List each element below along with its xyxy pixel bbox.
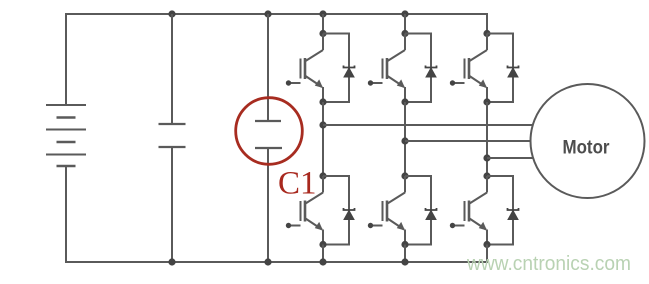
gate terminal of Q3 high-side xyxy=(450,80,455,85)
gate terminal of Q6 low-side xyxy=(450,223,455,228)
wire (C1 bottom lead) xyxy=(267,148,269,262)
diode D2 (freewheeling, cathode up) xyxy=(426,66,437,78)
node phase U (output tap, leg 1) xyxy=(319,121,326,128)
IGBT Q2 (high-side) xyxy=(383,34,406,103)
capacitor (input filter) xyxy=(159,124,186,147)
wire (freewheel branch of D6) xyxy=(487,176,513,245)
svg-text:www.cntronics.com: www.cntronics.com xyxy=(466,253,631,275)
junction node (collector of Q6 (low-side)) xyxy=(483,172,490,179)
junction node (collector of Q4 (low-side)) xyxy=(319,172,326,179)
wire (phase V to motor) xyxy=(405,140,533,142)
wire (leg 3 midpoint) xyxy=(486,102,488,176)
wire (leg 2 midpoint) xyxy=(404,102,406,176)
wire (leg 2 from DC+ bus) xyxy=(404,14,406,34)
gate terminal of Q2 high-side xyxy=(368,80,373,85)
junction node (collector of Q5 (low-side)) xyxy=(401,172,408,179)
junction node (bottom bus / C-filter) xyxy=(168,258,175,265)
battery V1 (DC source) xyxy=(46,105,86,166)
gate terminal of Q4 low-side xyxy=(286,223,291,228)
wire (DC- bottom bus) xyxy=(65,261,488,263)
junction node (emitter of Q2 (high-side)) xyxy=(401,98,408,105)
wire (freewheel branch of D1) xyxy=(323,34,349,103)
wire (freewheel branch of D4) xyxy=(323,176,349,245)
wire (leg 3 from DC+ bus) xyxy=(486,13,488,34)
wire (C1 top lead) xyxy=(267,14,269,121)
highlight circle around C1 xyxy=(236,98,303,165)
node phase W (output tap, leg 3) xyxy=(483,154,490,161)
wire (leg 1 midpoint) xyxy=(322,102,324,176)
IGBT Q3 (high-side) xyxy=(465,34,488,103)
junction node (emitter of Q3 (high-side)) xyxy=(483,98,490,105)
junction node (collector of Q1 (high-side)) xyxy=(319,30,326,37)
IGBT Q5 (low-side) xyxy=(383,176,406,245)
IGBT Q6 (low-side) xyxy=(465,176,488,245)
wire (battery positive lead) xyxy=(65,13,67,105)
motor M1 xyxy=(531,84,645,198)
diode D4 (freewheeling, cathode up) xyxy=(344,208,355,220)
junction node (emitter of Q6 (low-side)) xyxy=(483,241,490,248)
junction node (bottom bus / C1) xyxy=(264,258,271,265)
junction node (collector of Q2 (high-side)) xyxy=(401,30,408,37)
junction node (emitter of Q5 (low-side)) xyxy=(401,241,408,248)
IGBT Q1 (high-side) xyxy=(301,34,324,103)
wire (gate lead of Q2 (high-side)) xyxy=(370,82,383,84)
wire (phase W to motor) xyxy=(487,157,534,159)
diode D5 (freewheeling, cathode up) xyxy=(426,208,437,220)
gate terminal of Q1 high-side xyxy=(286,80,291,85)
gate terminal of Q5 low-side xyxy=(368,223,373,228)
wire (gate lead of Q6 (low-side)) xyxy=(452,225,465,227)
svg-text:C1: C1 xyxy=(278,166,317,202)
svg-text:Motor: Motor xyxy=(563,138,611,159)
junction node (top bus, leg 2) xyxy=(401,10,408,17)
junction node (emitter of Q4 (low-side)) xyxy=(319,241,326,248)
wire (filter cap bottom lead) xyxy=(171,147,173,262)
junction node (top bus, leg 1) xyxy=(319,10,326,17)
junction node (top bus / C1) xyxy=(264,10,271,17)
wire (leg 2 to DC- bus) xyxy=(404,245,406,263)
wire (leg 1 from DC+ bus) xyxy=(322,14,324,34)
wire (leg 1 to DC- bus) xyxy=(322,245,324,263)
diode D3 (freewheeling, cathode up) xyxy=(508,66,519,78)
node phase V (output tap, leg 2) xyxy=(401,137,408,144)
wire (gate lead of Q5 (low-side)) xyxy=(370,225,383,227)
IGBT Q4 (low-side) xyxy=(301,176,324,245)
junction node (bottom bus, leg 1) xyxy=(319,258,326,265)
junction node (bottom bus, leg 2) xyxy=(401,258,408,265)
wire (battery negative lead) xyxy=(65,166,67,263)
wire (freewheel branch of D2) xyxy=(405,34,431,103)
diode D6 (freewheeling, cathode up) xyxy=(508,208,519,220)
wire (gate lead of Q3 (high-side)) xyxy=(452,82,465,84)
wire (gate lead of Q4 (low-side)) xyxy=(288,225,301,227)
junction node (collector of Q3 (high-side)) xyxy=(483,30,490,37)
wire (leg 3 to DC- bus) xyxy=(486,245,488,264)
junction node (emitter of Q1 (high-side)) xyxy=(319,98,326,105)
capacitor C1 (DC-link) xyxy=(255,121,282,148)
wire (freewheel branch of D3) xyxy=(487,34,513,103)
junction node (top bus / C-filter) xyxy=(168,10,175,17)
wire (freewheel branch of D5) xyxy=(405,176,431,245)
wire (filter cap top lead) xyxy=(171,14,173,124)
diode D1 (freewheeling, cathode up) xyxy=(344,66,355,78)
wire (DC+ top bus) xyxy=(65,13,488,15)
wire (phase U to motor) xyxy=(323,124,534,126)
wire (gate lead of Q1 (high-side)) xyxy=(288,82,301,84)
